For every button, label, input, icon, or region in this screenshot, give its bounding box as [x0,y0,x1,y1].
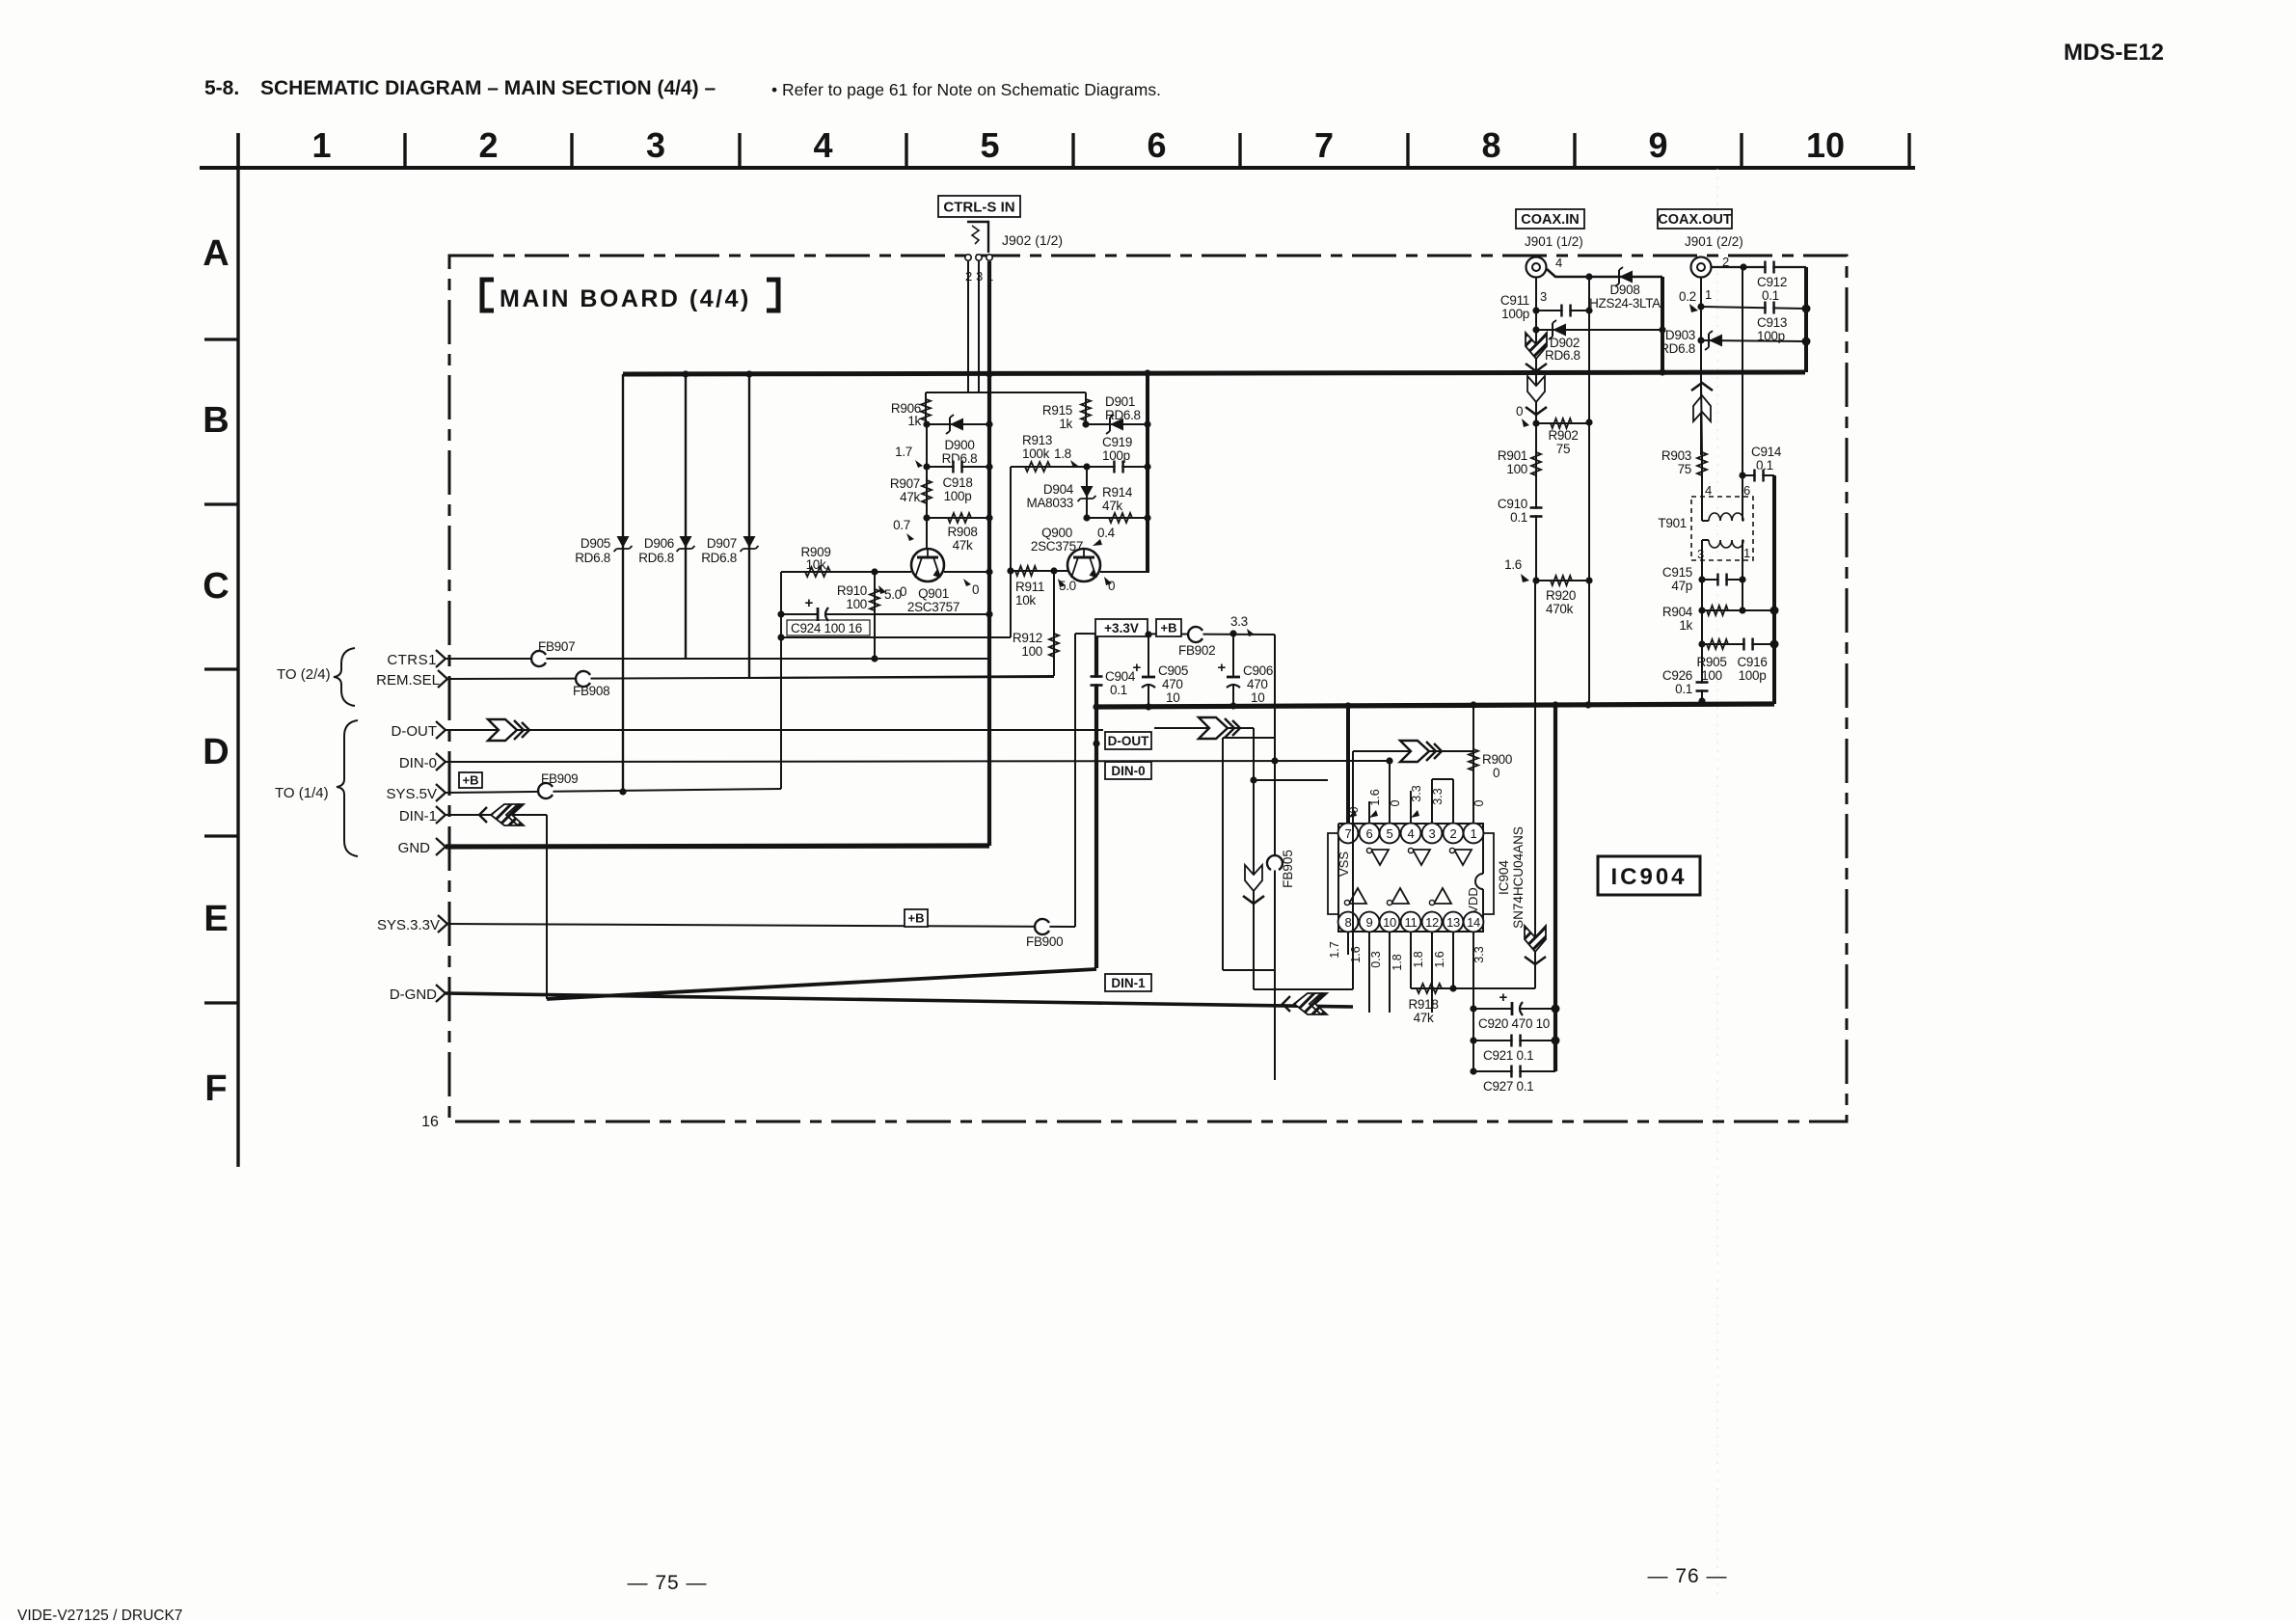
zener D908 [1619,271,1633,284]
resistor R911 [1015,566,1037,576]
bead FB902 [1189,628,1203,642]
bead FB907 [532,652,547,666]
wire R910 column [874,572,876,659]
svg-text:5: 5 [1387,826,1393,841]
wire C915 row [1702,579,1742,581]
node D901 col bus [1144,369,1150,376]
svg-text:C: C [203,566,229,607]
resistor R910 [870,589,879,610]
svg-text:0: 0 [1389,799,1402,806]
svg-text:1.8: 1.8 [1412,951,1425,967]
resistor R900 [1472,705,1474,777]
svg-text:2SC3757: 2SC3757 [907,600,959,614]
node [1449,985,1456,991]
svg-text:RD6.8: RD6.8 [1545,348,1580,363]
wire pin3 down [978,261,980,393]
net D-OUT box [1105,732,1151,749]
wire D-OUT col thick [1094,634,1098,968]
resistor R905 [1707,639,1728,649]
svg-text:IC904: IC904 [1497,859,1511,895]
wire pin4 row [1547,269,1662,277]
wire T901 pin4 coil [1701,512,1703,521]
connector J901 COAX.IN label [1516,209,1584,229]
transformer T901 [1691,497,1753,560]
svg-text:470: 470 [1162,677,1183,691]
wire Q901 emitter [944,571,989,573]
resistor R902 [1551,419,1572,428]
svg-text:14: 14 [1467,915,1480,930]
transistor Q900 [1067,549,1100,581]
node [1082,420,1089,427]
svg-text:VDD: VDD [1466,887,1480,913]
wire C924 row [781,613,989,615]
power +B box row E [905,909,928,927]
wire pin3 column [1535,278,1537,423]
wire pin1 column [1700,278,1702,455]
wire pin2 row [1712,266,1806,268]
wire pin2 down [967,261,969,393]
svg-text:+: + [1499,989,1508,1006]
wire pin1 riser [1472,777,1474,823]
svg-text:1k: 1k [1059,417,1072,431]
svg-text:C905: C905 [1158,663,1188,678]
svg-text:C919: C919 [1102,435,1132,449]
wire y1026 row [1254,988,1353,990]
wire C924 left column [780,572,782,637]
power +3.3V box [1095,619,1148,636]
capacitor C913 [1764,302,1767,314]
wire SYS.5V [446,789,781,793]
node [1698,640,1705,647]
svg-text:C921 0.1: C921 0.1 [1483,1048,1533,1063]
svg-text:1.8: 1.8 [1391,954,1404,970]
svg-text:C904: C904 [1105,669,1136,684]
diode D905 [617,536,630,548]
resistor R912 column [1053,571,1055,676]
capacitor C905 [1148,635,1149,707]
svg-text:J901 (2/2): J901 (2/2) [1685,234,1743,249]
svg-text:1.6: 1.6 [1504,557,1522,572]
svg-text:R901: R901 [1498,448,1527,463]
IC904 bottom pins 8-14 [1338,912,1359,933]
svg-text:J901 (1/2): J901 (1/2) [1525,234,1583,249]
svg-text:470k: 470k [1546,602,1574,616]
arrow down below bus [1526,376,1547,415]
wire T901 pin6 coil [1742,512,1743,521]
svg-text:16: 16 [421,1114,439,1130]
capacitor C919 [1113,461,1116,473]
svg-text:8: 8 [1345,915,1352,930]
svg-text:12: 12 [1425,915,1439,930]
svg-text:D904: D904 [1043,482,1074,497]
wire C921 row [1473,1040,1555,1041]
svg-text:+B: +B [908,911,925,926]
wire x1268 bottom row [1223,969,1275,971]
resistor R908 [948,513,971,523]
svg-text:3: 3 [1429,826,1436,841]
svg-text:+B: +B [463,773,479,788]
wire D900 row [927,423,989,425]
bead FB900 [1036,920,1050,934]
svg-text:C916: C916 [1737,655,1767,669]
wire C918 row [927,466,989,468]
node [1386,757,1392,764]
svg-text:C927 0.1: C927 0.1 [1483,1079,1533,1094]
wire D-OUT2 riser [1253,728,1255,989]
wire R907 column [926,424,928,548]
wire x1765 lower [1701,580,1703,701]
svg-text:10: 10 [1806,125,1845,165]
svg-text:75: 75 [1678,462,1691,476]
wire pin7 feed thick [1346,706,1350,823]
IC904 inverter A [1371,850,1389,865]
svg-text:— 75 —: — 75 — [627,1572,707,1594]
wire R908 row [927,517,989,519]
node [1145,631,1151,637]
diode D900 [950,419,963,431]
zener D903 [1709,335,1722,347]
node [1470,1005,1476,1012]
svg-text:C906: C906 [1243,663,1273,678]
svg-text:3.3: 3.3 [1431,788,1445,804]
svg-text:0: 0 [1516,404,1523,419]
resistor R904 [1707,606,1728,615]
wire R901 column [1535,423,1537,581]
wire x1647 column [1588,372,1590,705]
wire R902 row [1536,422,1589,424]
power +B box row D [459,772,482,788]
wire ground bus2 [1096,704,1774,707]
svg-text:R908: R908 [947,525,977,539]
column ruler line [200,166,1915,170]
svg-text:4: 4 [1408,826,1415,841]
wire pin11 drop [1410,933,1412,988]
svg-text:+B: +B [1161,621,1177,635]
svg-text:0.1: 0.1 [1762,288,1779,303]
svg-text:RD6.8: RD6.8 [1660,341,1695,356]
wire D-OUT2 [1154,727,1254,729]
svg-text:VSS: VSS [1337,852,1351,877]
node [1470,1068,1476,1074]
row margin line [236,133,239,1167]
wire Q900 emitter [1100,571,1149,573]
svg-text:13: 13 [1446,915,1460,930]
node R910 bottom [871,655,878,662]
svg-text:1.7: 1.7 [895,445,912,459]
node [1083,514,1090,521]
svg-text:75: 75 [1556,442,1570,456]
wire C920 row [1473,1008,1555,1010]
wire pin3-2 bridge [1431,779,1433,823]
svg-text:+: + [805,595,814,611]
node [1740,263,1746,270]
label C924 box [787,620,870,635]
svg-text:SYS.3.3V: SYS.3.3V [377,917,440,933]
svg-text:R911: R911 [1015,580,1044,594]
svg-text:47k: 47k [1414,1011,1434,1025]
svg-text:COAX.OUT: COAX.OUT [1658,212,1732,228]
capacitor C906 [1232,634,1234,707]
svg-text:1.8: 1.8 [1054,446,1071,461]
capacitor C924 [817,608,826,621]
arrow down x1300 [1243,865,1264,904]
wire T901 pin1 [1742,540,1743,610]
svg-text:MAIN BOARD (4/4): MAIN BOARD (4/4) [500,285,751,312]
svg-text:10k: 10k [806,557,826,572]
wire R903 column [1701,382,1702,455]
svg-text:8: 8 [1481,125,1500,165]
svg-text:R920: R920 [1546,588,1576,603]
wire R914 row [1087,517,1148,519]
svg-text:D908: D908 [1609,283,1639,297]
wire x1268 column [1222,738,1224,970]
svg-text:REM.SEL: REM.SEL [376,672,440,689]
svg-text:3: 3 [646,125,665,165]
svg-text:R913: R913 [1022,433,1052,447]
wire x1322 column [1274,635,1276,1080]
column ruler ticks [236,133,239,168]
connector J901 2/2 [1691,257,1712,278]
svg-text:2: 2 [1450,826,1457,841]
IC904 inverter E [1391,888,1409,904]
svg-text:1.6: 1.6 [1433,951,1446,967]
node FB909 D905 [619,788,626,795]
net DIN-1 box [1105,974,1151,991]
wire GND bus [446,846,989,847]
svg-text:7: 7 [1314,125,1334,165]
svg-text:Q900: Q900 [1041,526,1072,540]
svg-text:D907: D907 [707,536,737,551]
node [1739,472,1745,478]
wire pin13 drop [1452,933,1454,988]
board title MAIN BOARD 4/4 [482,280,778,311]
connector J901 1/2 [1526,257,1547,278]
svg-text:D-OUT: D-OUT [392,723,438,740]
wire R900 tap [1353,750,1473,752]
svg-text:0: 0 [1108,579,1115,593]
bead FB908 [577,672,591,687]
wire pin12 stub [1431,933,1433,1013]
svg-text:11: 11 [1405,915,1418,930]
node D907 bus [745,370,752,377]
svg-text:J902 (1/2): J902 (1/2) [1002,232,1063,248]
svg-text:6: 6 [1147,125,1166,165]
svg-text:100: 100 [846,597,867,611]
resistor R914 [1109,513,1132,523]
svg-text:6: 6 [1366,826,1373,841]
bead FB909 [539,784,554,798]
wire R909 row [781,571,911,573]
row margin ticks [204,338,238,340]
node [923,463,930,470]
svg-text:D900: D900 [944,438,974,452]
node [1698,607,1705,613]
wire R905 row [1702,643,1774,645]
svg-text:T901: T901 [1658,516,1687,530]
svg-text:+: + [1218,660,1227,676]
svg-text:47p: 47p [1671,579,1692,593]
wire CTRS1 [446,658,989,660]
node [1532,577,1539,583]
bead FB905 [1268,856,1283,871]
svg-text:1k: 1k [907,414,921,428]
wire R913 left column [1010,467,1012,637]
node [1697,303,1704,310]
svg-text:TO (1/4): TO (1/4) [275,785,329,801]
wire pin14 drop [1472,933,1474,1071]
main board outline [449,256,1847,1122]
svg-text:R912: R912 [1013,631,1042,645]
svg-text:F: F [204,1068,227,1109]
wire D903 row [1701,340,1806,341]
svg-text:3.3: 3.3 [1472,946,1486,962]
wire Q900 collector col thick [1146,373,1149,572]
wire base feed [926,392,1086,393]
arrow D-OUT [488,719,529,741]
node [1532,419,1539,426]
wire REM.SEL [447,677,1054,679]
svg-text:9: 9 [1648,125,1667,165]
IC904 inverter F [1434,888,1451,904]
svg-text:FB907: FB907 [538,639,575,654]
svg-text:CTRS1: CTRS1 [387,652,437,668]
IC IC904 body [1338,824,1483,932]
svg-text:100p: 100p [1102,448,1130,463]
svg-text:GND: GND [398,840,431,856]
wire DIN-0 [446,761,1390,762]
svg-text:RD6.8: RD6.8 [1105,408,1141,422]
wire C92x right column thick [1553,705,1557,1071]
arrow hatched down D902 [1526,333,1547,371]
svg-text:DIN-1: DIN-1 [399,808,437,825]
label IC904 box [1598,856,1700,895]
IC904 VSS loop [1328,833,1338,914]
wire R911 row [1011,570,1067,572]
svg-text:E: E [203,899,228,939]
wire x1268 top row [1223,737,1275,739]
capacitor C916 [1742,638,1745,651]
wire +B bus [623,372,1805,374]
capacitor C920 [1511,1002,1521,1015]
svg-text:100: 100 [1701,668,1722,683]
wire C911 row [1536,310,1589,311]
wire DIN-1 [446,814,547,816]
svg-text:5.0: 5.0 [884,587,902,602]
svg-text:VIDE-V27125 / DRUCK7: VIDE-V27125 / DRUCK7 [17,1608,182,1622]
svg-text:100p: 100p [944,489,972,503]
diode D901 [1110,419,1123,431]
capacitor C912 [1764,261,1767,274]
svg-text:2: 2 [478,125,498,165]
svg-text:5-8.: 5-8. [204,77,239,99]
zener D904 [1086,467,1088,518]
svg-text:• Refer to page 61 for Note on: • Refer to page 61 for Note on Schematic… [771,80,1161,99]
svg-text:D901: D901 [1105,394,1135,409]
svg-text:MDS-E12: MDS-E12 [2064,40,2164,66]
svg-text:C914: C914 [1751,445,1782,459]
svg-text:CTRL-S IN: CTRL-S IN [943,199,1014,215]
wire DIN-1 lower thick [547,969,1096,999]
node [1532,326,1539,333]
svg-text:D905: D905 [581,536,610,551]
wire 809 row [1254,779,1328,781]
connector J901 COAX.OUT label [1658,209,1732,229]
svg-text:1.6: 1.6 [1368,789,1382,805]
IC904 VDD loop [1483,833,1494,914]
wire D901 row [1086,423,1148,425]
IC904 inverter B [1413,850,1430,865]
svg-text:SYS.5V: SYS.5V [386,786,437,802]
power +B box row C [1156,619,1181,636]
wire C919 row [1087,466,1148,468]
wire +B riser left [1074,634,1076,927]
node [1470,1037,1476,1043]
node [986,568,992,575]
wire pin1 down thick [987,261,991,846]
arrow R900 tap [1400,741,1442,762]
node pin1 bus [986,370,992,377]
svg-text:C924 100 16: C924 100 16 [791,621,862,635]
wire pin8 stub [1347,933,1349,955]
wire C927 row [1473,1070,1555,1072]
svg-text:1k: 1k [1679,618,1692,633]
svg-text:FB905: FB905 [1281,850,1295,888]
svg-text:0.1: 0.1 [1675,682,1692,696]
svg-text:C912: C912 [1757,275,1787,289]
wire SYS.3.3V [447,924,1075,927]
svg-text:1.6: 1.6 [1349,946,1363,962]
wire T901 pin3 [1701,540,1703,580]
svg-text:D-OUT: D-OUT [1108,734,1149,748]
svg-text:C910: C910 [1498,497,1527,511]
arrow up x1765 [1691,383,1713,421]
wire x1403 column [1352,751,1354,989]
wire C914 col thick [1772,475,1776,704]
capacitor C914 [1753,470,1756,482]
svg-text:0: 0 [972,582,979,597]
capacitor C904 [1095,636,1097,707]
capacitor C910 [1530,509,1543,515]
arrow DIN-1 hatched [479,804,524,825]
svg-text:R918: R918 [1408,997,1438,1012]
svg-text:10: 10 [1383,915,1396,930]
svg-text:10k: 10k [1015,593,1036,608]
svg-text:9: 9 [1366,915,1373,930]
wire R904 row [1702,609,1774,611]
node [1532,307,1539,313]
node [923,420,930,427]
svg-text:1.7: 1.7 [1328,941,1341,958]
connector J902 jack symbol [967,222,988,253]
transistor Q901 [911,549,944,581]
wire R912 to REM.SEL [749,676,1054,678]
svg-text:D903: D903 [1665,328,1695,342]
svg-text:D: D [203,732,229,772]
node D906 bus [682,370,689,377]
diode D907 [743,536,756,548]
wire +B row [1075,634,1275,635]
svg-text:R900: R900 [1482,752,1512,767]
wire D907 column [748,374,750,679]
wire C913 row [1701,307,1806,309]
svg-text:1: 1 [1743,546,1750,560]
wire D908 col thick [1661,277,1664,372]
svg-text:B: B [203,400,229,441]
capacitor C915 [1716,574,1719,586]
node [1144,463,1150,470]
wire pin10 stub [1389,933,1391,1013]
svg-text:1: 1 [1705,287,1712,302]
